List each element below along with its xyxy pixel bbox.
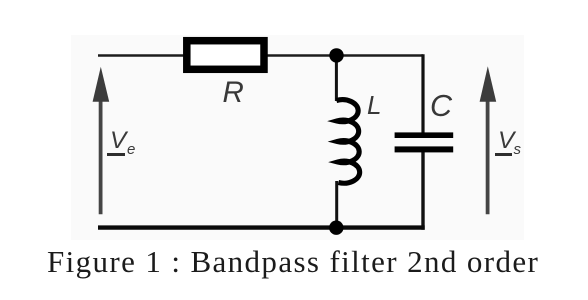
label L <box>367 90 381 121</box>
node junction dot top <box>329 48 343 62</box>
wire bottom horizontal <box>98 225 425 229</box>
inductor L coil <box>336 100 359 183</box>
capacitor C bottom plate <box>395 146 454 152</box>
node junction dot bottom <box>329 221 343 235</box>
caption <box>47 244 539 280</box>
label Vs underline <box>495 153 513 156</box>
arrow Ve shaft <box>99 98 103 214</box>
label Ve subscript e <box>127 141 135 158</box>
wire inductor stub bottom <box>335 181 338 228</box>
arrow Vs head <box>480 66 497 102</box>
wire inductor stub top <box>335 56 338 102</box>
label R <box>223 76 244 110</box>
arrow Vs shaft <box>486 98 490 214</box>
wire right vertical (capacitor branch top) <box>421 54 424 133</box>
label Ve underline <box>107 153 125 156</box>
label Vs letter V <box>498 127 514 155</box>
wire capacitor branch bottom <box>421 152 424 230</box>
scan background panel <box>71 35 524 240</box>
wire top horizontal <box>98 54 423 57</box>
label Vs subscript s <box>514 141 522 158</box>
arrow Ve head <box>93 67 110 102</box>
label C <box>430 89 452 124</box>
capacitor C top plate <box>395 132 454 138</box>
resistor R <box>187 41 264 70</box>
label Ve letter V <box>110 127 126 155</box>
